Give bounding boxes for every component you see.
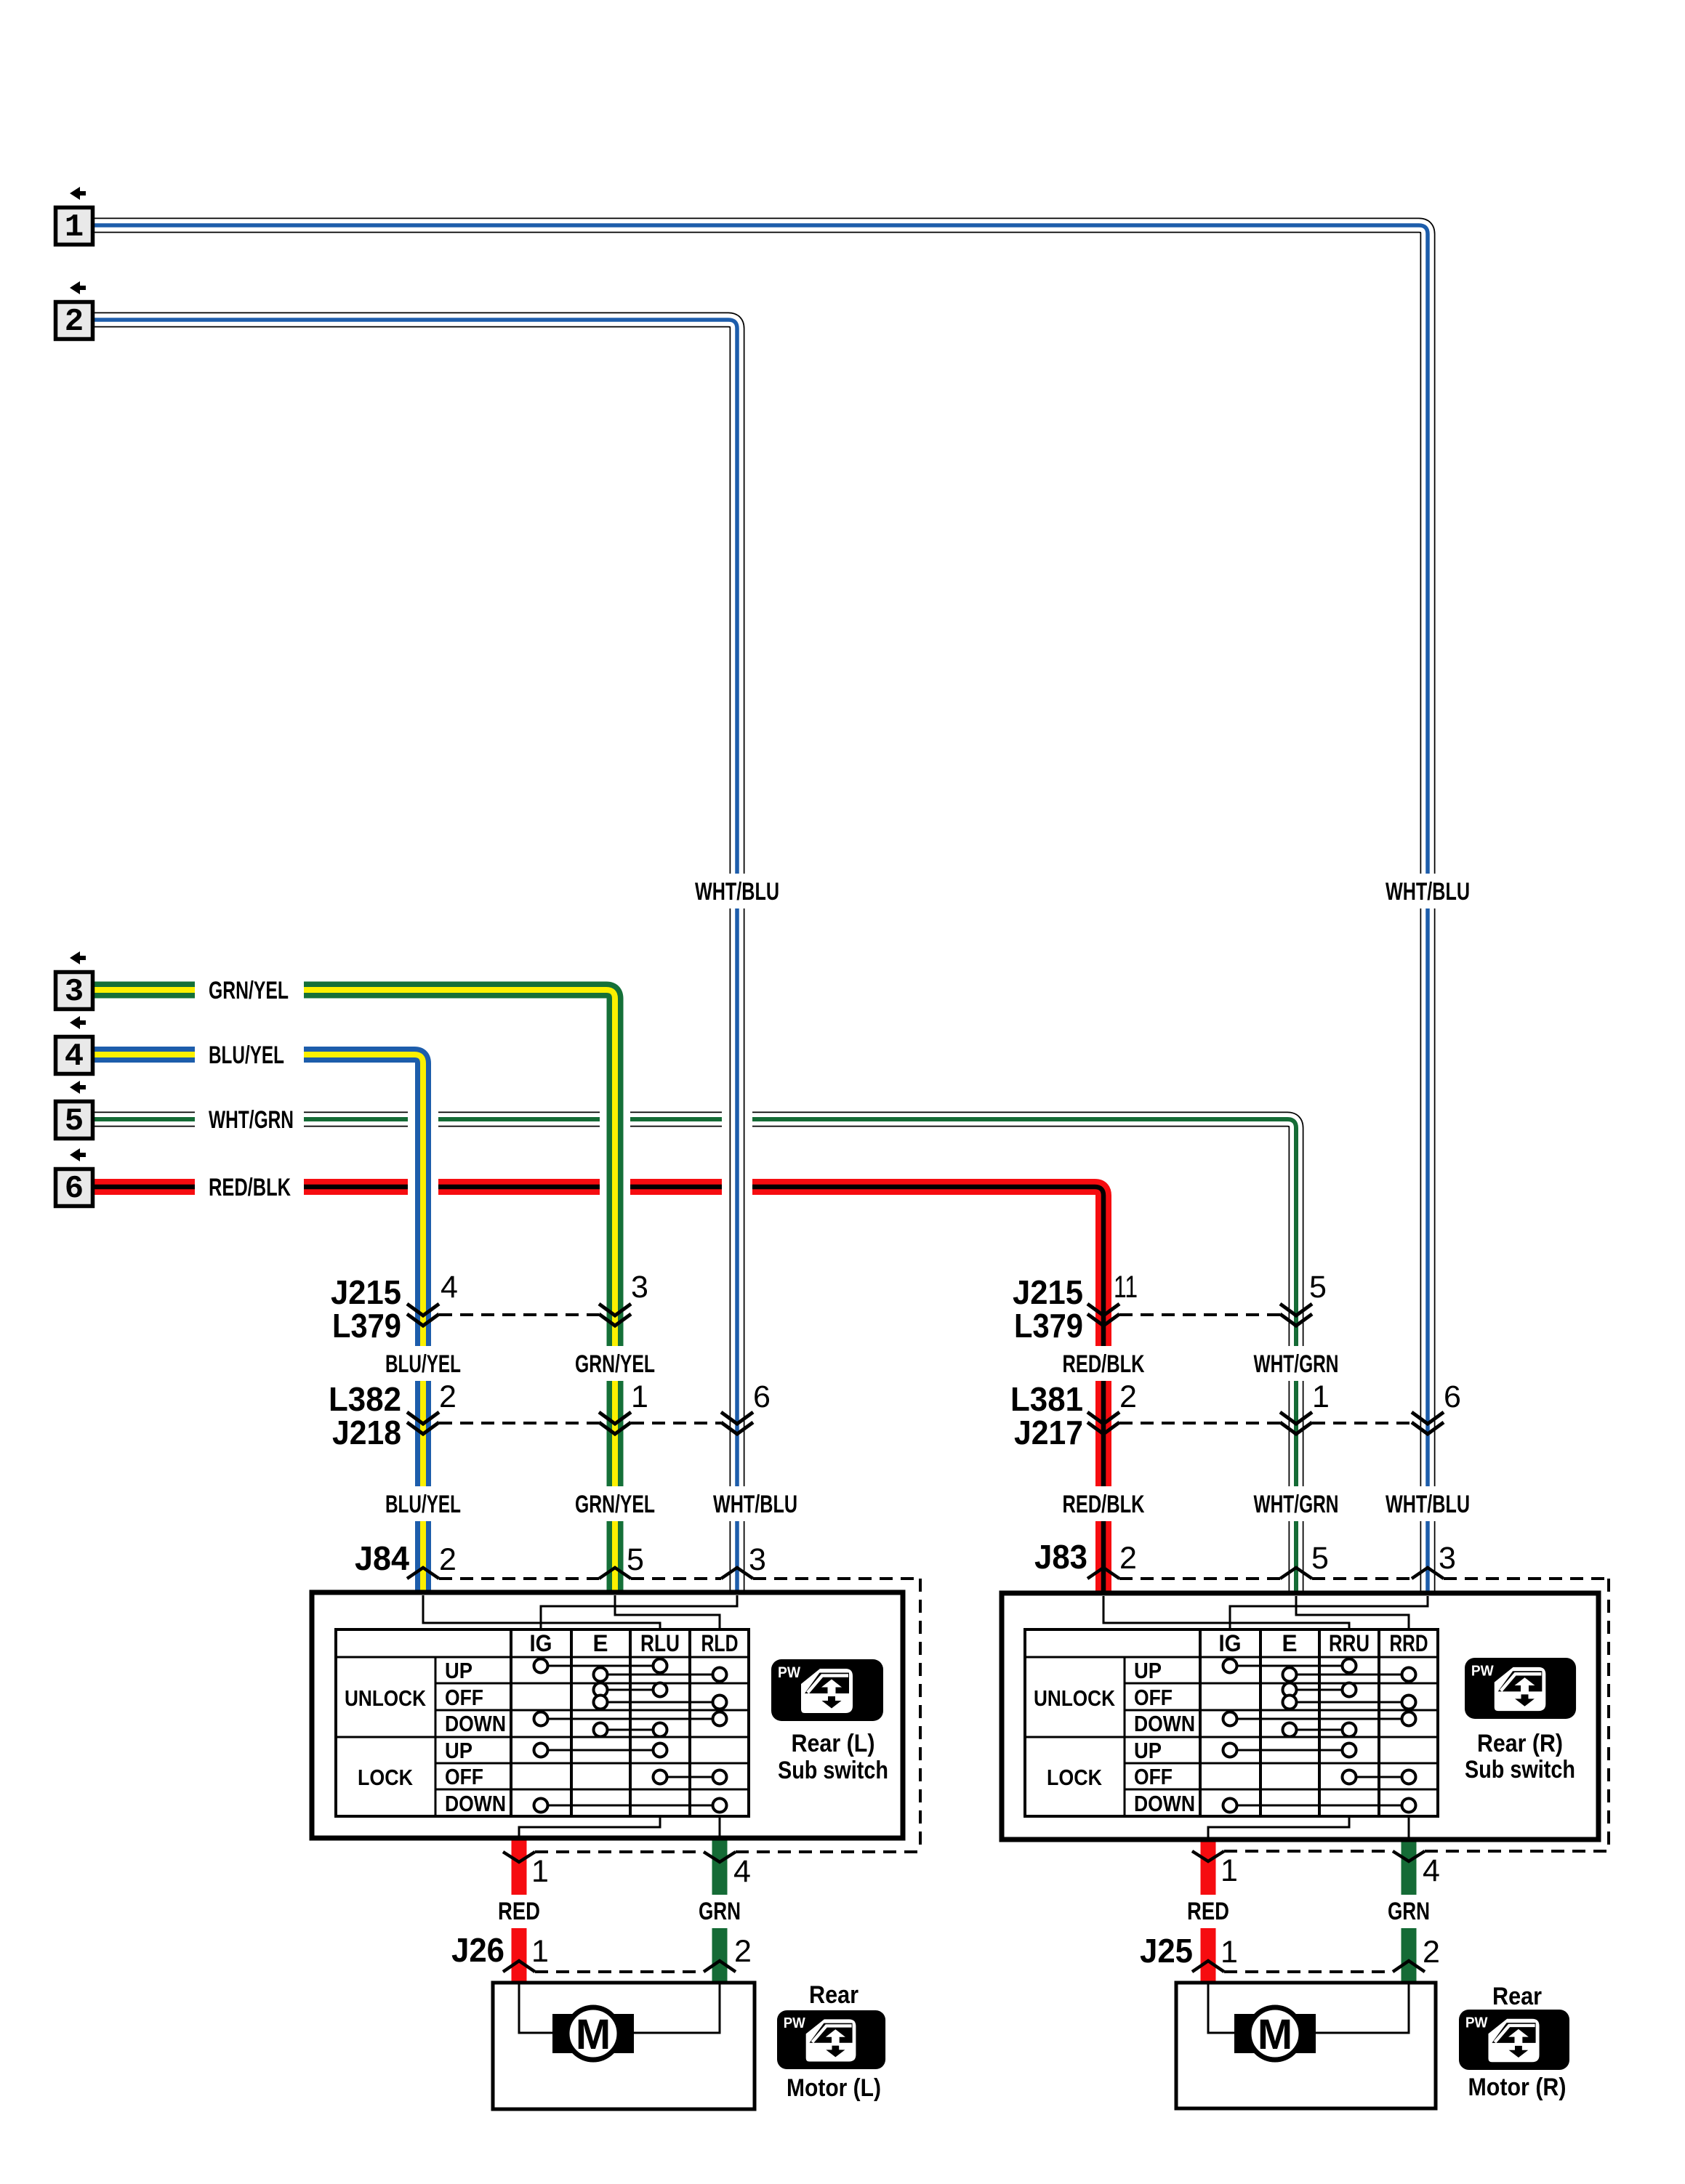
svg-text:OFF: OFF — [1134, 1764, 1173, 1789]
svg-text:3: 3 — [65, 974, 84, 1010]
PW icon right motor — [1459, 2010, 1569, 2070]
svg-text:J215: J215 — [331, 1273, 401, 1311]
svg-text:Sub switch: Sub switch — [778, 1757, 888, 1784]
svg-text:1: 1 — [65, 209, 84, 246]
svg-text:LOCK: LOCK — [358, 1765, 414, 1790]
svg-text:DOWN: DOWN — [1134, 1711, 1195, 1736]
connector J25 dashed with chevrons pins 1,2 — [1224, 1970, 1393, 1973]
wire 2: WHT/BLU from connector 2, right then down to J84 pin 3 — [94, 320, 737, 1596]
svg-text:Motor (R): Motor (R) — [1468, 2074, 1567, 2101]
connector J215/L379 left: dashed with double chevrons pins 4,3 — [439, 1313, 599, 1316]
motor left internal wires — [519, 1983, 552, 2033]
svg-text:11: 11 — [1114, 1270, 1138, 1305]
wire GRN right: switch box to motor J25 pin 2 — [1402, 1839, 1417, 1983]
svg-text:BLU/YEL: BLU/YEL — [209, 1041, 284, 1069]
svg-text:1: 1 — [1312, 1379, 1330, 1414]
wire crossing halos (verticals over horizontals) — [408, 1090, 438, 1221]
wire GRN left: switch box to motor J26 pin 2 — [712, 1838, 728, 1983]
arrow above box 2 — [70, 281, 86, 294]
svg-text:RED/BLK: RED/BLK — [1063, 1350, 1145, 1378]
svg-text:RED: RED — [498, 1898, 540, 1925]
svg-text:5: 5 — [1309, 1270, 1327, 1305]
svg-text:Sub switch: Sub switch — [1465, 1756, 1575, 1784]
motor right motor symbol M — [1234, 2014, 1316, 2053]
svg-text:Rear: Rear — [1492, 1983, 1542, 2010]
svg-text:RLD: RLD — [701, 1630, 739, 1656]
svg-text:WHT/GRN: WHT/GRN — [1254, 1350, 1339, 1378]
svg-text:1: 1 — [1220, 1853, 1238, 1888]
connector L382/J218 left: dashed with double chevrons pins 2,1,6 — [439, 1422, 599, 1425]
wire 3: GRN/YEL from connector 3, right then down to J84 pin 5 — [94, 990, 615, 1596]
motor right internal wires — [1208, 1983, 1234, 2033]
arrow above box 6 — [70, 1148, 86, 1161]
svg-text:L382: L382 — [329, 1380, 401, 1418]
svg-text:4: 4 — [65, 1039, 84, 1075]
svg-text:LOCK: LOCK — [1047, 1765, 1103, 1790]
svg-text:RRU: RRU — [1329, 1630, 1370, 1656]
connector L381/J217 right: dashed with double chevrons pins 2,1,6 — [1119, 1422, 1280, 1425]
svg-text:M: M — [576, 2011, 611, 2058]
svg-text:1: 1 — [1220, 1935, 1238, 1970]
chevrons at right switch box bottom pins 1,4 — [1192, 1851, 1224, 1861]
svg-text:5: 5 — [65, 1103, 84, 1140]
svg-text:Motor (L): Motor (L) — [787, 2074, 881, 2102]
svg-text:2: 2 — [439, 1542, 457, 1577]
svg-text:3: 3 — [749, 1542, 766, 1577]
svg-text:2: 2 — [65, 304, 84, 340]
svg-text:RED/BLK: RED/BLK — [209, 1174, 291, 1201]
left switch contact rows — [541, 1665, 660, 1667]
svg-text:4: 4 — [441, 1270, 458, 1305]
arrow above box 3 — [70, 951, 86, 964]
svg-text:L379: L379 — [332, 1307, 401, 1345]
svg-text:5: 5 — [1311, 1541, 1329, 1576]
svg-text:OFF: OFF — [1134, 1685, 1173, 1710]
connector box 6 — [56, 1169, 93, 1206]
svg-text:4: 4 — [733, 1854, 751, 1889]
wire RED right: switch box to motor J25 pin 1 — [1201, 1839, 1216, 1983]
svg-text:IG: IG — [1219, 1630, 1242, 1656]
svg-text:J26: J26 — [451, 1931, 504, 1969]
svg-text:UP: UP — [445, 1658, 472, 1683]
svg-text:J217: J217 — [1014, 1414, 1083, 1451]
svg-text:6: 6 — [1444, 1379, 1461, 1414]
svg-text:1: 1 — [531, 1854, 549, 1889]
arrow above box 5 — [70, 1081, 86, 1094]
svg-text:J218: J218 — [332, 1414, 401, 1451]
svg-text:E: E — [1282, 1630, 1298, 1656]
svg-text:5: 5 — [627, 1542, 644, 1577]
PW icon right switch — [1465, 1658, 1576, 1719]
connector J84 dashed boundary with chevrons pins 2,5,3 — [439, 1577, 599, 1580]
arrow above box 4 — [70, 1016, 86, 1029]
connector J26 dashed with chevrons pins 1,2 — [535, 1970, 704, 1973]
svg-text:UNLOCK: UNLOCK — [1034, 1685, 1116, 1711]
svg-text:2: 2 — [734, 1934, 752, 1969]
svg-text:J83: J83 — [1034, 1538, 1087, 1576]
svg-text:GRN: GRN — [699, 1898, 741, 1925]
svg-text:GRN/YEL: GRN/YEL — [575, 1491, 655, 1518]
svg-text:WHT/GRN: WHT/GRN — [1254, 1491, 1339, 1518]
svg-text:UP: UP — [445, 1738, 472, 1763]
right switch internal contact table — [1025, 1629, 1438, 1816]
motor left motor symbol M — [552, 2014, 634, 2053]
svg-text:UNLOCK: UNLOCK — [345, 1685, 427, 1711]
connector J215/L379 right: dashed with double chevrons pins 11,5 — [1119, 1313, 1280, 1316]
svg-text:3: 3 — [631, 1270, 648, 1305]
svg-text:WHT/GRN: WHT/GRN — [209, 1106, 294, 1134]
svg-text:GRN/YEL: GRN/YEL — [575, 1350, 655, 1378]
wire RED left: switch box to motor J26 pin 1 — [512, 1838, 527, 1983]
label gaps on vertical wires — [692, 874, 782, 908]
svg-text:J215: J215 — [1013, 1273, 1083, 1311]
svg-text:OFF: OFF — [445, 1764, 483, 1789]
svg-text:J84: J84 — [355, 1539, 409, 1577]
svg-text:OFF: OFF — [445, 1685, 483, 1710]
svg-text:L379: L379 — [1014, 1307, 1083, 1345]
connector box 5 — [56, 1102, 93, 1139]
svg-text:1: 1 — [631, 1379, 648, 1414]
svg-text:Rear (L): Rear (L) — [792, 1730, 875, 1757]
chevrons at left switch box bottom pins 1,4 — [503, 1852, 535, 1862]
wire 5: WHT/GRN from connector 5, right then down to J83 pin 5 — [94, 1119, 1296, 1596]
svg-text:RED: RED — [1187, 1898, 1229, 1925]
svg-text:1: 1 — [531, 1934, 549, 1969]
connector box 4 — [56, 1037, 93, 1074]
left switch internal contact table — [336, 1629, 749, 1816]
left switch internal wires to bottom pins — [519, 1816, 660, 1836]
svg-text:WHT/BLU: WHT/BLU — [1386, 1491, 1470, 1518]
svg-text:UP: UP — [1134, 1658, 1162, 1683]
wire 1: WHT/BLU from connector 1, right then down to J83 pin 3 — [94, 225, 1428, 1596]
svg-text:WHT/BLU: WHT/BLU — [695, 878, 779, 906]
right switch internal wires to bottom pins — [1208, 1816, 1349, 1837]
svg-text:3: 3 — [1439, 1541, 1456, 1576]
right switch contact rows — [1230, 1665, 1349, 1667]
svg-text:BLU/YEL: BLU/YEL — [385, 1350, 461, 1378]
svg-text:DOWN: DOWN — [445, 1711, 506, 1736]
wire 6: RED/BLK from connector 6, right then down to J83 pin 2 — [94, 1187, 1103, 1596]
svg-text:RLU: RLU — [640, 1630, 680, 1656]
svg-text:DOWN: DOWN — [1134, 1791, 1195, 1816]
svg-text:2: 2 — [1423, 1935, 1440, 1970]
svg-text:6: 6 — [65, 1171, 84, 1207]
svg-text:2: 2 — [1119, 1379, 1137, 1414]
left switch outer box — [312, 1592, 903, 1838]
left switch internal wires from top pins — [423, 1595, 660, 1629]
PW icon left motor — [777, 2010, 885, 2069]
svg-text:E: E — [593, 1630, 608, 1656]
svg-text:WHT/BLU: WHT/BLU — [1386, 878, 1470, 906]
motor left box — [493, 1983, 755, 2109]
svg-text:BLU/YEL: BLU/YEL — [385, 1491, 461, 1518]
svg-text:DOWN: DOWN — [445, 1791, 506, 1816]
connector box 1 — [56, 208, 93, 245]
svg-text:J25: J25 — [1140, 1932, 1193, 1970]
PW icon left switch — [771, 1659, 883, 1721]
svg-text:M: M — [1258, 2011, 1292, 2058]
svg-text:GRN: GRN — [1388, 1898, 1430, 1925]
svg-text:RRD: RRD — [1390, 1630, 1428, 1656]
svg-text:4: 4 — [1423, 1853, 1440, 1888]
wire 4: BLU/YEL from connector 4, right then down to J84 pin 2 — [94, 1055, 423, 1596]
right switch outer box — [1002, 1593, 1598, 1840]
connector J83 dashed boundary with chevrons pins 2,5,3 — [1119, 1577, 1280, 1580]
svg-text:GRN/YEL: GRN/YEL — [209, 977, 289, 1004]
svg-text:2: 2 — [439, 1379, 457, 1414]
svg-text:L381: L381 — [1010, 1380, 1083, 1418]
svg-text:UP: UP — [1134, 1738, 1162, 1763]
motor right box — [1176, 1983, 1436, 2108]
connector box 3 — [56, 972, 93, 1010]
svg-text:6: 6 — [753, 1379, 771, 1414]
svg-text:RED/BLK: RED/BLK — [1063, 1491, 1145, 1518]
svg-text:Rear (R): Rear (R) — [1477, 1730, 1563, 1757]
right switch internal wires from top pins — [1103, 1596, 1349, 1629]
arrow above box 1 — [70, 187, 86, 200]
svg-text:IG: IG — [530, 1630, 552, 1656]
svg-text:Rear: Rear — [809, 1981, 858, 2009]
svg-text:WHT/BLU: WHT/BLU — [713, 1491, 797, 1518]
label gaps for wire name labels on wires 3-6 — [195, 978, 304, 1002]
svg-text:2: 2 — [1119, 1541, 1137, 1576]
connector box 2 — [56, 302, 93, 339]
